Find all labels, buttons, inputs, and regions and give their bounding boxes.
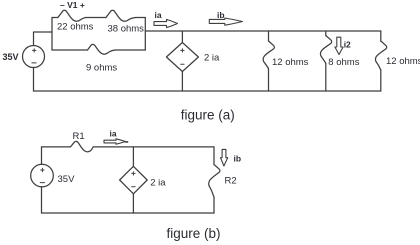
svg-text:8 ohms: 8 ohms — [328, 57, 359, 68]
svg-text:2 ia: 2 ia — [204, 53, 220, 64]
wire top rail right (figure b) — [93, 146, 214, 148]
wire dependent source to rail — [181, 72, 183, 92]
resistor 8 ohms — [321, 36, 332, 64]
wire source bottom to rail — [33, 68, 35, 92]
current arrow ib (figure a) — [209, 18, 242, 25]
svg-text:ib: ib — [217, 10, 225, 20]
svg-text:ia: ia — [110, 129, 117, 139]
dependent source 2ia (figure b) — [120, 166, 148, 194]
resistor R2 — [209, 165, 220, 198]
wire top branch left stub — [52, 17, 58, 19]
resistor 12 ohms (second) — [376, 41, 387, 70]
svg-text:12 ohms: 12 ohms — [272, 57, 309, 68]
svg-text:12 ohms: 12 ohms — [386, 56, 420, 67]
current arrow ia (figure b) — [104, 139, 125, 144]
dependent source 2ia (figure a) — [166, 43, 198, 72]
wire top rail left (figure b) — [42, 146, 71, 148]
wire bottom branch right stub — [115, 49, 145, 51]
svg-text:figure (a): figure (a) — [181, 108, 235, 123]
wire right edge bottom (figure b) — [213, 197, 215, 213]
svg-text:9 ohms: 9 ohms — [86, 63, 117, 74]
svg-text:2 ia: 2 ia — [150, 177, 166, 188]
wire rail to dependent source (figure b) — [132, 147, 134, 166]
resistor 9 ohms — [88, 44, 116, 54]
wire source top (figure b) — [41, 147, 43, 165]
resistor 12 ohms (first) — [263, 41, 274, 69]
wire output rail — [145, 30, 380, 32]
svg-text:R2: R2 — [225, 176, 237, 187]
wire rail to dependent source — [181, 31, 183, 43]
wire source bottom (figure b) — [41, 187, 43, 213]
wire right edge top (figure b) — [213, 147, 215, 165]
wire branch 12 ohms (second) bottom stub — [380, 70, 382, 91]
svg-text:figure (b): figure (b) — [167, 226, 221, 241]
svg-text:– V1 +: – V1 + — [60, 0, 85, 10]
wire loop left edge — [51, 18, 53, 51]
voltage source 35V (figure b) — [31, 164, 54, 187]
current arrow ia tip stub (figure b) — [126, 141, 128, 143]
wire loop right edge — [144, 18, 146, 51]
wire top branch right stub — [136, 17, 146, 19]
svg-text:ia: ia — [155, 10, 162, 20]
svg-text:R1: R1 — [73, 131, 85, 142]
voltage source V1 35V (figure a) — [23, 46, 45, 68]
svg-text:i2: i2 — [344, 40, 351, 50]
svg-text:38 ohms: 38 ohms — [108, 24, 145, 35]
current arrow ib (figure b) — [221, 149, 228, 166]
wire bottom branch left stub — [52, 49, 88, 51]
wire branch 12 ohms (second) top stub — [380, 31, 382, 41]
resistor 22 ohms — [58, 10, 86, 21]
svg-text:ib: ib — [234, 154, 242, 164]
bottom rail wire — [34, 90, 381, 92]
current arrow i2 — [335, 37, 343, 54]
wire branch 12 ohms top stub — [268, 31, 270, 41]
wire branch 12 ohms bottom stub — [268, 69, 270, 91]
wire branch 8 ohms bottom stub — [325, 64, 327, 92]
resistor 38 ohms — [106, 10, 136, 21]
wire source top to loop left — [34, 32, 53, 46]
svg-text:35V: 35V — [3, 52, 19, 62]
current arrow ia (figure a) — [154, 19, 178, 27]
wire dependent source to bottom (figure b) — [132, 194, 134, 213]
wire branch 8 ohms top stub — [325, 31, 327, 36]
svg-text:35V: 35V — [58, 174, 76, 185]
resistor R1 — [71, 141, 94, 151]
wire between 22 and 38 — [86, 17, 106, 19]
bottom rail (figure b) — [42, 212, 215, 214]
svg-text:22 ohms: 22 ohms — [57, 22, 94, 33]
